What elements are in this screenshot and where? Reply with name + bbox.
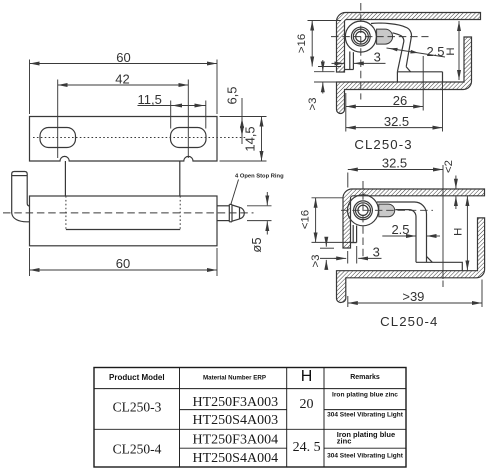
svg-text:24. 5: 24. 5 xyxy=(293,440,321,455)
front leaf body xyxy=(30,196,218,246)
svg-text:26: 26 xyxy=(393,93,407,108)
dim 60 top xyxy=(30,50,218,65)
arm outer edge xyxy=(371,23,411,67)
dim 3 extensions xyxy=(348,246,357,264)
knuckle centerline vertical xyxy=(360,3,362,100)
svg-text:H: H xyxy=(301,368,313,385)
svg-text:Remarks: Remarks xyxy=(350,374,380,381)
svg-text:CL250-3: CL250-3 xyxy=(113,400,162,415)
door panel (bottom + right + lip, hatched) xyxy=(336,218,484,303)
knuckle centerline horizontal xyxy=(341,209,433,211)
slot hole left xyxy=(40,128,76,148)
pin hook (bent end) xyxy=(12,172,30,222)
knuckle ring 2 xyxy=(356,203,371,218)
svg-text:20: 20 xyxy=(300,397,314,412)
svg-text:zinc: zinc xyxy=(337,436,352,445)
slot hole right xyxy=(171,128,207,148)
dim 60 top extension right xyxy=(216,60,218,115)
svg-text:32.5: 32.5 xyxy=(384,114,409,129)
svg-text:3: 3 xyxy=(373,245,380,260)
dim 60 top extension left xyxy=(29,60,31,115)
dim 32.5 xyxy=(346,114,443,129)
svg-text:2.5: 2.5 xyxy=(391,222,409,237)
frame wall (top + left, hatched) xyxy=(337,13,481,73)
svg-text:H: H xyxy=(445,47,457,55)
svg-text:CL250-4: CL250-4 xyxy=(380,314,438,329)
svg-text:Iron plating blue zinc: Iron plating blue zinc xyxy=(332,391,398,398)
dim 3 xyxy=(335,245,382,260)
dim <16 extensions xyxy=(312,198,357,243)
svg-text:11,5: 11,5 xyxy=(138,92,162,107)
dim 26 xyxy=(346,93,423,108)
door panel (bottom + right + lip, hatched) xyxy=(337,37,472,114)
svg-text:HT250S4A004: HT250S4A004 xyxy=(193,451,279,466)
svg-text:Product Model: Product Model xyxy=(109,373,165,382)
svg-text:CL250-4: CL250-4 xyxy=(113,442,162,457)
knuckle ring 2 xyxy=(353,29,368,44)
svg-text:H: H xyxy=(453,228,465,236)
table row lines xyxy=(94,389,406,430)
open stop ring xyxy=(229,204,232,221)
svg-text:HT250F3A003: HT250F3A003 xyxy=(193,395,279,410)
pin boss (gray) xyxy=(377,29,393,44)
arm inner edge xyxy=(393,33,404,72)
slot centerline vertical right xyxy=(187,80,189,159)
svg-text:<2: <2 xyxy=(443,160,455,173)
arm-foot fillet xyxy=(406,67,410,72)
dim 14,5 xyxy=(243,117,262,162)
plate outline with notches xyxy=(30,117,218,162)
dim 11,5 xyxy=(138,92,206,107)
hinge leaf below knuckle xyxy=(345,52,354,70)
knuckle ring 1 xyxy=(354,201,373,220)
dim 11,5 extension lines xyxy=(171,101,206,129)
dim phi5 xyxy=(249,192,268,253)
pin tip cone xyxy=(232,205,244,221)
svg-text:>39: >39 xyxy=(402,289,424,304)
hinge leaf below knuckle xyxy=(351,225,357,243)
dim >3 xyxy=(307,60,323,111)
back leaf edge left xyxy=(64,161,66,196)
svg-text:HT250F3A004: HT250F3A004 xyxy=(193,432,279,447)
dim 6,5 xyxy=(225,86,243,144)
slot centerline vertical left xyxy=(57,80,59,159)
knuckle pin hole xyxy=(358,205,368,215)
dim 32.5 extension xyxy=(442,72,444,132)
back leaf edge right xyxy=(179,161,181,196)
dim 14,5 extension xyxy=(220,160,267,162)
svg-text:60: 60 xyxy=(116,50,130,65)
svg-text:CL250-3: CL250-3 xyxy=(354,137,412,152)
svg-text:14,5: 14,5 xyxy=(243,126,258,151)
svg-text:6,5: 6,5 xyxy=(225,86,240,104)
barrel bottom edge xyxy=(66,229,180,231)
svg-text:3: 3 xyxy=(374,50,381,65)
svg-text:42: 42 xyxy=(115,72,129,87)
arm outer edge xyxy=(377,202,427,262)
table column lines xyxy=(180,368,325,468)
dim 2.5 (arm thickness, slanted) xyxy=(387,44,446,59)
dim >16 xyxy=(296,21,312,67)
dim 60 bottom xyxy=(30,256,218,271)
dim H xyxy=(453,196,468,270)
arm-foot fillet xyxy=(427,256,433,262)
svg-text:304 Steel Vibrating Light: 304 Steel Vibrating Light xyxy=(327,412,404,419)
label 4 Open Stop Ring xyxy=(231,174,284,205)
door face centerline tick xyxy=(442,281,444,288)
knuckle centerline horizontal xyxy=(331,36,429,38)
svg-text:Material Number ERP: Material Number ERP xyxy=(203,375,266,382)
knuckle outer circle xyxy=(348,195,379,226)
table outer border xyxy=(94,368,406,468)
arm inner edge xyxy=(395,210,416,263)
svg-text:ø5: ø5 xyxy=(249,237,264,252)
dim <2 xyxy=(443,160,456,209)
dim <16 xyxy=(299,198,315,243)
frame wall (top + left, hatched) xyxy=(343,189,485,248)
pin axis centerline xyxy=(3,212,254,214)
svg-text:2.5: 2.5 xyxy=(426,44,444,59)
svg-text:<16: <16 xyxy=(299,210,311,229)
dim >39 xyxy=(348,289,482,304)
dim >3 xyxy=(310,238,327,270)
knuckle pin hole xyxy=(356,31,366,41)
table sub-row lines xyxy=(180,410,407,449)
svg-text:60: 60 xyxy=(116,256,130,271)
dim 42 xyxy=(58,72,189,87)
dim 3 xyxy=(332,50,386,65)
dim 2.5 (arm thickness) xyxy=(382,222,440,237)
svg-text:>16: >16 xyxy=(296,34,308,53)
slot centerline horizontal xyxy=(33,137,247,139)
svg-text:304 Steel Vibrating Light: 304 Steel Vibrating Light xyxy=(327,452,404,459)
dim 32.5 xyxy=(348,156,443,171)
dim >39 extensions xyxy=(348,280,482,308)
svg-text:HT250S4A003: HT250S4A003 xyxy=(193,413,279,428)
dim phi5 extensions xyxy=(247,206,272,221)
dim 6,5 extension xyxy=(220,116,267,118)
dim H xyxy=(445,21,459,80)
barrel hidden edge right xyxy=(179,196,181,230)
dim >16 extensions xyxy=(308,21,342,67)
arm foot plate xyxy=(397,72,442,82)
dim 26 extension xyxy=(422,56,424,111)
dim 26 left extension xyxy=(345,93,347,132)
dim >3 extensions xyxy=(314,72,336,82)
arm foot plate xyxy=(416,262,462,270)
knuckle centerline vertical xyxy=(362,181,364,260)
svg-text:>3: >3 xyxy=(310,255,322,268)
dim 32.5 extensions xyxy=(348,165,443,279)
svg-text:>3: >3 xyxy=(307,98,319,111)
dim >3 extensions xyxy=(320,248,342,258)
barrel hidden edge left xyxy=(65,196,67,230)
svg-text:4 Open Stop Ring: 4 Open Stop Ring xyxy=(235,174,284,180)
dim 60 bottom extensions xyxy=(30,248,218,276)
svg-text:32.5: 32.5 xyxy=(382,156,407,171)
pin shaft right xyxy=(217,206,229,221)
knuckle outer circle xyxy=(345,21,376,52)
pin boss (gray) xyxy=(379,204,395,217)
knuckle ring 1 xyxy=(351,27,370,46)
